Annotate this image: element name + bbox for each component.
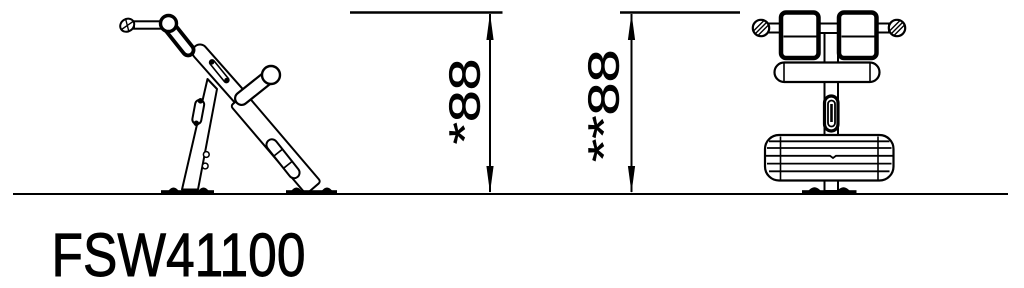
front view: bottom pad seam line 2 [767, 147, 892, 149]
dimension 2 extension line [620, 11, 740, 13]
front view: bottom pad seam line 1 [769, 140, 890, 142]
side view: slot on main beam [209, 59, 230, 84]
dimension 2 text **88 [580, 49, 629, 162]
dimension 1 vertical line [489, 14, 491, 192]
front view: crossbar between pads [817, 24, 840, 34]
front view: roller cylinder [775, 63, 880, 83]
front view: base plate [802, 190, 857, 194]
svg-text:**88: **88 [580, 49, 629, 162]
front view: bottom pad end seam left [780, 137, 782, 180]
front view: left top pad [781, 13, 819, 59]
side view: roller arm end circle [262, 66, 280, 84]
front view: post slot inner [828, 101, 835, 127]
side view: screw slot lines [122, 19, 134, 33]
front view: left stub axle [769, 24, 784, 33]
front view: bottom pad middle seam [766, 156, 893, 158]
side view: left base anchor bolt left [169, 188, 179, 191]
side view: right leg tube [231, 93, 321, 194]
dimension 1 text *88 [440, 59, 489, 145]
side view: right base anchor bolt right [322, 188, 332, 191]
dimension 2 arrow bottom [628, 166, 635, 193]
side view: bolt detail on left leg [203, 152, 209, 158]
side view: slot on right leg outer [264, 137, 302, 180]
front view: bottom pad seam line 3 [767, 163, 892, 165]
side view: handlebar screw head [118, 16, 137, 34]
side view: main beam [189, 41, 251, 109]
dimension 2 arrow top [628, 13, 635, 40]
front view: right top pad [839, 13, 877, 59]
svg-text:*88: *88 [440, 59, 489, 145]
side view: roller arm [232, 70, 275, 108]
front view: bottom pad end seam right [877, 137, 879, 180]
side view: left leg tube [182, 79, 217, 190]
front view: right screw slot [890, 20, 905, 36]
svg-text:FSW41100: FSW41100 [52, 221, 306, 288]
front view: base anchor bolt right [838, 187, 850, 190]
dimension 1 extension line [350, 11, 503, 13]
front view: left screw slot [754, 20, 769, 36]
front view: base anchor bolt left [809, 187, 821, 190]
side view: right base anchor bolt left [292, 188, 302, 191]
side view: slot on left leg dark ends [198, 98, 204, 104]
front view: left screw head [753, 20, 769, 36]
dimension 1 arrow top [486, 13, 493, 40]
side view: handlebar tube [134, 21, 162, 28]
front view: post slot pin [830, 104, 833, 122]
side view: bolt detail 2 on left leg [202, 163, 208, 169]
front view: bottom pad seam line 4 [769, 170, 890, 172]
front view: left pad inner line [784, 36, 817, 38]
front view: post slot outer [825, 96, 839, 131]
side view: clamp body at pivot [163, 20, 196, 58]
front view: roller end seam right [869, 64, 871, 82]
side view: slot on right leg divider ticks [274, 150, 291, 168]
front view: roller end seam left [783, 64, 785, 82]
side view: right base plate [286, 190, 337, 194]
front view: centre post [825, 30, 839, 191]
side view: pivot ring [161, 16, 177, 32]
front view: right stub axle [874, 24, 889, 33]
side view: slot on left leg [192, 99, 205, 125]
front view: right screw head [889, 20, 905, 36]
ground line [13, 193, 1008, 195]
dimension 1 arrow bottom [486, 166, 493, 193]
front view: bottom pad [765, 135, 894, 181]
side view: left base anchor bolt right [199, 188, 209, 191]
side view: slot on main beam dark ends [210, 60, 215, 65]
side view: left base plate [161, 190, 214, 194]
front view: right pad inner line [842, 36, 875, 38]
dimension 2 vertical line [631, 14, 633, 192]
